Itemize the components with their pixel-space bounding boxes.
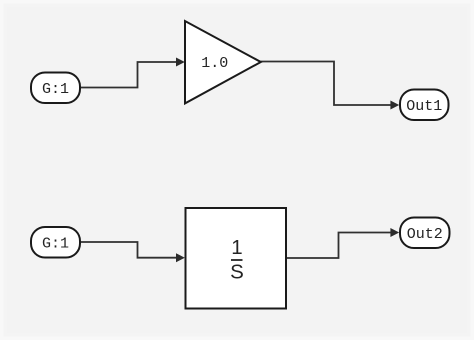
svg-text:G:1: G:1 bbox=[42, 81, 69, 98]
svg-text:Out1: Out1 bbox=[406, 98, 442, 115]
svg-text:G:1: G:1 bbox=[42, 236, 69, 253]
svg-text:1.0: 1.0 bbox=[201, 55, 228, 72]
svg-text:S: S bbox=[230, 261, 244, 284]
svg-text:1: 1 bbox=[231, 236, 242, 259]
svg-text:Out2: Out2 bbox=[407, 226, 443, 243]
